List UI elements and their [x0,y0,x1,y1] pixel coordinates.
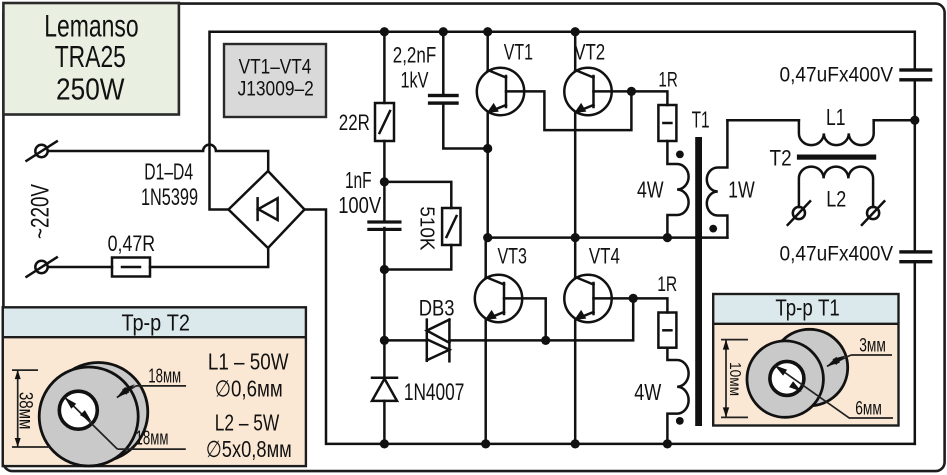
svg-text:TRA25: TRA25 [55,40,126,74]
winding 4W bottom (T1) [667,348,688,444]
node: top bus / VT2 collector [571,27,580,36]
dimension 38mm [12,370,50,447]
input terminal bottom [27,257,57,276]
resistor 0,47R [112,258,150,277]
svg-text:~220V: ~220V [27,184,55,239]
bridge diode symbol [258,198,278,220]
wire: bridge - output down to bottom bus [305,210,915,444]
svg-text:D1–D4: D1–D4 [144,158,193,184]
node: 22R / 1nF / 510K top [380,177,389,186]
capacitor 0,47uFx400V top [899,68,932,81]
node: bottom bus / 1N4007 anode [380,439,389,448]
wire: bottom input line right of 0,47R [150,248,268,267]
svg-text:0,47R: 0,47R [108,231,156,256]
bridge rectifier D1-D4 diamond [229,171,305,248]
winding 1W (T1 secondary) [707,120,728,237]
transistor VT3 [475,275,546,341]
wire: VT1/VT2 base node to 1R [631,91,667,105]
svg-text:18мм: 18мм [136,428,169,450]
transformer T1 core [695,137,702,426]
svg-text:1N5399: 1N5399 [141,184,198,211]
svg-text:4W: 4W [634,379,661,405]
diac DB3 [384,320,545,362]
svg-text:VT1–VT4: VT1–VT4 [239,55,312,79]
node: top bus / VT1 collector [483,27,492,36]
svg-text:VT3: VT3 [497,243,527,268]
svg-text:0,47uFx400V: 0,47uFx400V [780,63,894,87]
svg-text:∅0,6мм: ∅0,6мм [215,375,283,401]
svg-text:18мм: 18мм [148,365,181,387]
svg-text:510K: 510K [415,206,437,251]
transformer T2 core [797,155,876,160]
dimension 10mm [721,340,748,418]
wire: L1 to caps midpoint [874,119,915,122]
svg-text:1N4007: 1N4007 [404,379,465,406]
svg-text:Lemanso: Lemanso [44,8,138,44]
node: bottom bus / 4W bottom winding [663,439,672,448]
wire: VT3 emitter to bottom bus [484,319,487,444]
wire: VT4 emitter to bottom bus [574,319,577,444]
wire: 22R to 1nF node [383,141,386,221]
wire: top input line with crossover hump [48,145,268,171]
wire: VT4 collector to midpoint bus [574,238,577,277]
right rail top segment [914,32,917,69]
node: VT4 base tie [629,294,638,303]
info box Tp-p T1 [713,294,898,426]
svg-text:1kV: 1kV [401,67,429,92]
output terminal left [788,201,810,225]
transistor type info box VT1-VT4 J13009-2 [224,44,326,117]
wire: bottom input line left of 0,47R [48,266,112,269]
svg-text:38мм: 38мм [15,392,36,430]
svg-text:6мм: 6мм [855,399,882,420]
wire: bridge + output to top bus [210,32,915,210]
wire: VT1 emitter down to midpoint bus [486,112,489,237]
svg-text:2,2nF: 2,2nF [393,42,437,67]
svg-text:VT2: VT2 [574,39,605,64]
svg-text:Тр-р Т2: Тр-р Т2 [121,309,190,335]
wire: VT3/VT4 base node links [546,298,668,340]
svg-text:3мм: 3мм [859,336,886,357]
node: midpoint bus / 4W top winding [663,233,672,242]
svg-text:VT1: VT1 [504,39,533,64]
svg-text:T2: T2 [770,146,792,171]
wire: VT3 collector to midpoint bus [484,238,487,277]
svg-text:DB3: DB3 [419,296,455,321]
svg-text:J13009–2: J13009–2 [238,76,314,100]
svg-text:L1 – 50W: L1 – 50W [208,348,289,374]
wire: VT1 collector to top bus [486,32,489,70]
svg-text:Тр-р Т1: Тр-р Т1 [775,294,840,320]
node: 2,2nF to VT1 emitter [483,144,492,153]
capacitor 1nF 100V [367,220,401,231]
wire: 1W top to L1 [727,119,799,122]
svg-text:1R: 1R [657,273,677,296]
svg-text:L2 – 5W: L2 – 5W [215,409,280,435]
svg-text:L2: L2 [826,187,846,212]
transistor VT2 [564,68,631,115]
wire: VT2 emitter down to midpoint bus [574,112,577,237]
node: 1nF / 510K bottom [380,265,389,274]
svg-text:250W: 250W [56,72,125,106]
winding 4W top (T1) [667,141,688,238]
node: bottom bus / VT4 emitter [571,439,580,448]
svg-text:L1: L1 [826,104,846,130]
toroid T2 drawing [39,363,148,467]
phase dot 4W bottom [676,417,684,425]
node: VT1/VT2 base tie [627,87,636,96]
dimension 18mm top (wall) [117,365,186,397]
winding L2 (T2 secondary) [799,167,873,207]
resistor 510K [442,208,460,245]
node: VT3 base / DB3 right [541,336,550,345]
node: midpoint bus / VT1 emitter / VT3 collector [483,233,492,242]
svg-text:0,47uFx400V: 0,47uFx400V [780,242,894,266]
wire: 510K parallel branch [384,182,451,444]
resistor 1R bottom [658,313,676,348]
node: top bus / 2,2nF branch [439,27,448,36]
output terminal right [862,201,884,225]
diode 1N4007 [372,378,397,401]
dimension 3mm (wall) [827,336,892,367]
node: midpoint bus / VT2 emitter / VT4 collector [571,233,580,242]
wire: 22R branch from top bus [383,32,386,103]
transistor VT1 [477,68,632,130]
node: DB3 left / 1N4007 cathode [380,336,389,345]
transistor VT4 [564,275,633,322]
wire: right rail bottom [914,263,917,444]
svg-text:VT4: VT4 [589,243,620,268]
capacitor 2,2nF 1kV [428,32,488,149]
svg-text:T1: T1 [692,106,710,132]
toroid T1 drawing [747,329,848,417]
svg-text:1R: 1R [658,69,677,92]
winding L1 (T2 primary) [799,120,874,145]
midpoint bus [488,236,728,239]
info box Tp-p T2 [3,307,306,466]
svg-text:∅5x0,8мм: ∅5x0,8мм [206,436,292,462]
node: capacitor midpoint / L1 right end [910,116,919,125]
svg-text:100V: 100V [338,192,381,218]
Lemanso title box [3,3,179,115]
svg-text:10мм: 10мм [726,362,743,396]
resistor 22R [375,103,394,141]
svg-text:22R: 22R [339,110,370,135]
input terminal top [27,141,57,160]
wire: right rail middle [914,82,917,251]
svg-text:4W: 4W [637,177,664,203]
T2 winding specs [206,348,292,462]
phase dot 1W [709,225,717,233]
phase dot 4W top [676,151,684,159]
capacitor 0,47uFx400V bottom [899,250,932,263]
svg-text:1W: 1W [728,177,755,203]
svg-text:1nF: 1nF [345,167,372,193]
resistor 1R top [658,105,676,141]
dimension 18mm bottom (hole) [65,397,186,449]
dimension 6mm (hole) [775,365,894,419]
node: bottom bus / VT3 emitter [481,439,490,448]
wire: VT2 collector to top bus [574,32,577,70]
node: top bus / 22R branch [380,27,389,36]
